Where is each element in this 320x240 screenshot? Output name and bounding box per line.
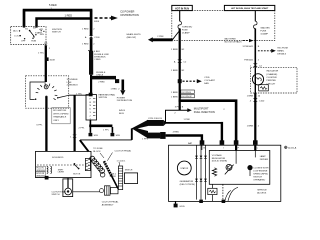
- ignition switch contact OFF: [24, 38, 25, 39]
- svg-text:CLOSES WITH: CLOSES WITH: [253, 167, 268, 169]
- dashed ground drop: [222, 184, 224, 199]
- starter motor armature: [85, 158, 90, 170]
- note box 4 speed transaxle: [52, 108, 70, 124]
- ignition switch contact START: [35, 34, 36, 35]
- generator outer box: [169, 145, 281, 201]
- svg-text:C220 1 BLK B: C220 1 BLK B: [148, 118, 162, 120]
- svg-text:ONLY: ONLY: [53, 120, 59, 122]
- svg-text:B2 IGNITION: B2 IGNITION: [53, 110, 66, 112]
- svg-text:OFF: OFF: [21, 40, 26, 42]
- ignition switch contact LOCK: [20, 35, 21, 36]
- terminal B3: [35, 26, 38, 28]
- connector C: [160, 132, 165, 139]
- switch arm: [225, 165, 234, 175]
- svg-text:BLOCK DETAILS: BLOCK DETAILS: [225, 41, 243, 44]
- wire 6 PPL distributor to starter solenoid: [45, 108, 47, 151]
- connector C2: [253, 63, 258, 66]
- splice junction to park/neutral switch: [89, 93, 93, 97]
- ignition switch aux contacts: [41, 30, 42, 31]
- wire 2 RED feed to ignition switch terminal B1: [23, 10, 93, 27]
- svg-text:LOCK: LOCK: [14, 36, 20, 38]
- svg-text:HOT IN RUN: HOT IN RUN: [175, 7, 189, 10]
- svg-text:MOTOR: MOTOR: [73, 173, 81, 175]
- dashed arrow TBC fuse panel: [258, 50, 271, 52]
- wire I terminal to generator: [166, 122, 222, 124]
- svg-text:1 YEL: 1 YEL: [76, 94, 83, 96]
- regulator input stubs: [236, 145, 255, 150]
- svg-text:1 C100 1: 1 C100 1: [117, 160, 127, 162]
- svg-text:1 RED: 1 RED: [82, 44, 89, 46]
- svg-text:S208: S208: [50, 60, 56, 62]
- ground G105: [175, 201, 177, 204]
- indicator shunt resistor: [259, 85, 269, 91]
- svg-text:D2 POWER: D2 POWER: [121, 9, 135, 13]
- wire park/neutral output: [89, 120, 91, 125]
- svg-text:WITH 4 SPEED: WITH 4 SPEED: [53, 113, 69, 115]
- svg-text:SWITCH: SWITCH: [99, 97, 108, 99]
- wire branch to 4 speed note: [73, 95, 75, 151]
- resistor to ground: [208, 188, 217, 194]
- svg-text:COOLANT: COOLANT: [204, 79, 215, 82]
- svg-text:1 BRN: 1 BRN: [171, 49, 178, 51]
- svg-text:INDICATOR: INDICATOR: [266, 70, 278, 73]
- label HOLD IN WINDING: [36, 172, 46, 177]
- connector C2 on brn wire: [177, 60, 182, 63]
- svg-text:CLUTCH PEDAL: CLUTCH PEDAL: [102, 200, 119, 203]
- fuse block dashed box: [172, 11, 275, 41]
- actuator rod lower: [112, 176, 118, 189]
- gauges fuse: [254, 11, 256, 22]
- svg-text:DISTRIBUTION: DISTRIBUTION: [117, 100, 133, 102]
- svg-text:TURN B/U: TURN B/U: [182, 27, 193, 29]
- svg-text:TRANSAXLE: TRANSAXLE: [53, 116, 67, 119]
- instrument cluster dashed box: [250, 67, 297, 93]
- wire 3 PNK gauges fuse to cluster: [254, 29, 256, 68]
- svg-text:2 PPL: 2 PPL: [79, 127, 86, 129]
- svg-text:BLOCK: BLOCK: [93, 151, 101, 153]
- svg-text:1 BRN: 1 BRN: [171, 92, 178, 94]
- svg-text:POWER: POWER: [117, 98, 126, 100]
- svg-text:2 RED: 2 RED: [94, 59, 101, 61]
- voltage regulator box: [209, 151, 269, 185]
- svg-text:S2B: S2B: [116, 135, 121, 137]
- svg-text:SPEED (RPM): SPEED (RPM): [253, 173, 268, 175]
- solenoid switch housing: [67, 178, 69, 188]
- svg-text:MULTIPORT: MULTIPORT: [194, 106, 209, 110]
- svg-text:TBC FUSE: TBC FUSE: [277, 47, 288, 49]
- splice S218 with coolant fan tap: [178, 79, 182, 83]
- charge indicator bulb: [252, 74, 263, 85]
- svg-text:GENERATOR: GENERATOR: [180, 180, 194, 183]
- wire 1 BRN from turn fuse: [179, 29, 181, 111]
- svg-text:LEVER: LEVER: [58, 172, 65, 174]
- fusible link B heavy bar: [89, 51, 93, 75]
- pictorial link line: [73, 191, 100, 193]
- svg-text:2 RED/BLK: 2 RED/BLK: [67, 84, 79, 86]
- svg-text:SWITCH: SWITCH: [52, 194, 60, 196]
- svg-text:GAUGES: GAUGES: [260, 27, 270, 30]
- svg-text:B6 B: B6 B: [119, 113, 124, 115]
- actuator hatched rod: [104, 161, 112, 176]
- wire through indicator: [254, 67, 256, 93]
- svg-text:IGNITION: IGNITION: [52, 29, 62, 31]
- svg-text:ACCESS: ACCESS: [257, 192, 267, 195]
- terminal connector P: [234, 140, 239, 145]
- svg-text:C100: C100: [259, 100, 265, 102]
- svg-text:RUN: RUN: [31, 40, 36, 42]
- ignition switch contact ACC: [19, 30, 20, 31]
- distributor cap contact ring: [36, 83, 58, 100]
- svg-text:2 PNK: 2 PNK: [157, 36, 164, 38]
- connector C100: [253, 98, 258, 101]
- svg-text:IGN: IGN: [40, 34, 44, 36]
- svg-text:1 PNK: 1 PNK: [184, 119, 191, 121]
- starter assembly box: [36, 151, 92, 177]
- svg-text:2 RED: 2 RED: [98, 82, 105, 84]
- switch slide hatched bar: [118, 166, 122, 190]
- label box HOT IN RUN: [172, 5, 193, 10]
- svg-text:3 PNK A21: 3 PNK A21: [242, 45, 253, 48]
- battery junction Y merge: [132, 120, 148, 139]
- svg-text:1 BRN: 1 BRN: [171, 70, 178, 72]
- svg-text:PNK A21: PNK A21: [244, 58, 254, 61]
- turn b/u fuse: [179, 11, 181, 22]
- solenoid contacts: [74, 163, 76, 165]
- svg-text:10 AMP: 10 AMP: [260, 33, 268, 36]
- svg-text:FU VIN B: FU VIN B: [182, 92, 192, 94]
- wire 1 BRN to generator L: [254, 93, 256, 142]
- wire 1 YEL ignition start to distributor: [45, 46, 47, 76]
- svg-text:15 AMP: 15 AMP: [182, 32, 190, 35]
- svg-text:1 RED: 1 RED: [82, 29, 89, 31]
- wire below fusible link: [90, 75, 92, 95]
- mounting pictorial curves: [225, 187, 238, 201]
- connector C2: [73, 135, 77, 138]
- wire BAT terminal to generator: [166, 134, 202, 141]
- svg-text:(DELCOTRON): (DELCOTRON): [180, 184, 195, 186]
- svg-text:DETAILS: DETAILS: [277, 52, 286, 55]
- terminal C ignition switch start output: [44, 44, 48, 46]
- svg-text:CLUTCH START: CLUTCH START: [52, 191, 68, 194]
- svg-text:PRINTED: PRINTED: [266, 80, 276, 82]
- wire down arrow to power distribution: [122, 80, 125, 91]
- svg-text:OPERATED: OPERATED: [253, 178, 265, 181]
- svg-text:SERVICE: SERVICE: [257, 190, 267, 192]
- rectifier bridge diodes: [197, 145, 206, 199]
- distributor internal feed wire: [45, 76, 47, 82]
- distributor rotor lead to ground exit: [45, 96, 47, 98]
- svg-text:C100: C100: [94, 37, 100, 39]
- wire fusible link main vertical: [90, 10, 93, 35]
- svg-text:STATOR: STATOR: [180, 167, 188, 170]
- svg-text:LOW ENGINE: LOW ENGINE: [253, 170, 268, 172]
- svg-text:FU VIN W: FU VIN W: [182, 96, 193, 98]
- heavy feed bar to power distribution: [92, 76, 117, 80]
- svg-text:1 PPL: 1 PPL: [103, 129, 110, 131]
- headlights tap: [172, 32, 178, 40]
- ignition switch contact RUN: [32, 38, 33, 39]
- return spring coil pictorial: [90, 156, 105, 173]
- svg-text:S204: S204: [94, 21, 100, 23]
- label box HOT IN RUN BULB TEST AND START: [224, 5, 274, 10]
- connector block: [115, 79, 119, 83]
- distributor pickup coil circle: [44, 85, 48, 89]
- svg-text:DISTRIBUTION: DISTRIBUTION: [121, 13, 139, 17]
- ignition switch rotor arm: [29, 30, 31, 32]
- wire 1 RED feed to ignition switch terminal B3: [35, 18, 91, 27]
- lamp driver transistor: [247, 165, 252, 170]
- linkage dashed line: [37, 164, 90, 166]
- solenoid windings: [47, 166, 48, 173]
- svg-text:SWITCH: SWITCH: [125, 169, 133, 171]
- stator circle: [177, 161, 191, 175]
- svg-text:HEADLIGHTS: HEADLIGHTS: [127, 33, 142, 36]
- svg-text:6 PPL: 6 PPL: [37, 125, 44, 127]
- svg-text:FUSE: FUSE: [182, 30, 188, 32]
- dashed off-page arrow D2 power distribution: [95, 17, 112, 19]
- wire 1 YEL branch to distributor: [69, 94, 89, 96]
- svg-text:HOT IN RUN, BULB TEST AND STAR: HOT IN RUN, BULB TEST AND START: [231, 7, 269, 10]
- svg-text:PANEL: PANEL: [277, 49, 285, 52]
- svg-text:1 RED: 1 RED: [65, 14, 73, 18]
- terminal B1: [22, 26, 25, 28]
- svg-text:(CHARGE): (CHARGE): [266, 73, 277, 76]
- svg-text:FAN: FAN: [204, 82, 209, 85]
- svg-text:1 RED: 1 RED: [111, 88, 118, 90]
- svg-text:5 RED: 5 RED: [49, 3, 57, 7]
- heavy cable lower 4 RED: [147, 133, 160, 139]
- svg-text:1 BRN: 1 BRN: [247, 95, 254, 97]
- park neutral position switch box: [86, 95, 97, 120]
- svg-text:3 PNK B: 3 PNK B: [175, 106, 184, 108]
- terminal connector I: [220, 140, 225, 145]
- svg-text:ACC: ACC: [13, 30, 18, 33]
- ground bus junction dots: [199, 200, 203, 203]
- distributor dashed box: [26, 76, 69, 108]
- wire 3 PNK branch to generator: [179, 99, 237, 141]
- svg-text:TO FUSE: TO FUSE: [93, 148, 103, 150]
- wire from Y tip down to starter: [131, 128, 133, 140]
- svg-text:4 RED: 4 RED: [173, 131, 180, 133]
- svg-text:G105: G105: [179, 206, 185, 208]
- svg-text:CLUTCH PEDAL: CLUTCH PEDAL: [115, 149, 132, 152]
- svg-text:1 BRN: 1 BRN: [247, 125, 254, 127]
- svg-text:VOLTAGE: VOLTAGE: [212, 154, 223, 157]
- connector C100: [89, 35, 93, 38]
- svg-text:SWITCH: SWITCH: [52, 32, 61, 34]
- wire branch to multiport fuel injection: [166, 110, 188, 122]
- svg-text:(SOLID STATE): (SOLID STATE): [212, 160, 228, 163]
- terminal connector L: [253, 140, 258, 145]
- starter ground junction: [45, 176, 49, 180]
- connector S2B: [111, 133, 115, 136]
- terminal connector BAT: [200, 140, 205, 145]
- svg-text:4 BLK: 4 BLK: [94, 51, 100, 53]
- svg-text:SWITCH: SWITCH: [253, 176, 262, 178]
- svg-text:LAMP: LAMP: [260, 155, 266, 158]
- svg-text:BAT TERM: BAT TERM: [225, 37, 236, 40]
- svg-text:B45 B: B45 B: [119, 110, 125, 112]
- svg-text:ASSEMBLY: ASSEMBLY: [102, 203, 114, 206]
- connector S1B: [89, 133, 93, 136]
- svg-text:1 YEL: 1 YEL: [38, 52, 45, 54]
- svg-text:1 BRN: 1 BRN: [171, 96, 178, 98]
- label A-100-A: [285, 146, 288, 149]
- heavy cable upper 1 BLK: [147, 120, 164, 126]
- field winding: [212, 168, 216, 176]
- ignition switch dashed box: [11, 27, 46, 45]
- svg-text:SOLENOID: SOLENOID: [52, 157, 64, 159]
- svg-text:CLUSTER: CLUSTER: [266, 77, 277, 79]
- svg-text:WINDING: WINDING: [36, 170, 45, 172]
- label PULL IN WINDING: [36, 166, 46, 171]
- svg-text:FUSE: FUSE: [260, 31, 266, 33]
- svg-text:FUEL INJECTION: FUEL INJECTION: [194, 110, 215, 114]
- svg-text:REGULATOR: REGULATOR: [212, 157, 226, 160]
- svg-text:C205: C205: [204, 77, 210, 79]
- splice S208: [45, 57, 49, 61]
- svg-text:(BELOW): (BELOW): [127, 37, 137, 39]
- svg-text:PARK/NEUTRAL: PARK/NEUTRAL: [99, 93, 116, 96]
- transistor: [226, 164, 232, 170]
- svg-text:1 PPL: 1 PPL: [142, 138, 149, 140]
- svg-text:DRIVER: DRIVER: [260, 159, 269, 161]
- svg-text:BAT: BAT: [188, 142, 193, 145]
- svg-text:A-100-A: A-100-A: [288, 146, 297, 149]
- svg-text:WINDING: WINDING: [36, 175, 45, 177]
- svg-text:S1B: S1B: [94, 135, 99, 137]
- pedal shaft pictorial: [100, 189, 104, 193]
